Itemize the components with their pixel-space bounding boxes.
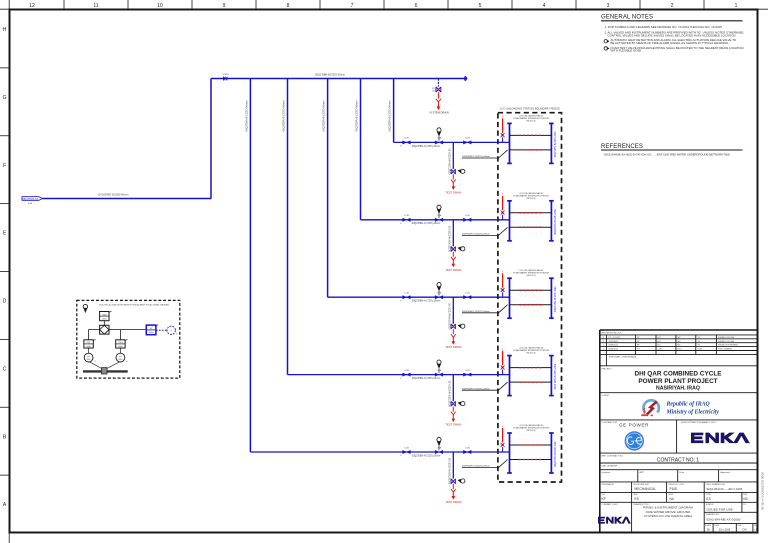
svg-text:D: D: [3, 299, 7, 305]
svg-text:PSH: PSH: [118, 342, 123, 344]
svg-text::: :: [745, 144, 746, 147]
wire dotted signal: [156, 329, 167, 331]
svg-text:00Q2'DBN-B-('225')-00mm: 00Q2'DBN-B-('225')-00mm: [354, 101, 358, 132]
svg-text:LC/B: LC/B: [404, 447, 409, 449]
wire riser: [210, 79, 212, 199]
wire station 3 branch: [328, 296, 510, 298]
svg-text:(NOTE-4): (NOTE-4): [526, 275, 535, 277]
svg-text:ISSUED FOR USE: ISSUED FOR USE: [707, 507, 733, 511]
svg-text:11: 11: [93, 3, 98, 9]
node spray header right station 4: [549, 356, 557, 396]
svg-text:FOR COMMENT: FOR COMMENT: [718, 349, 733, 351]
svg-text:00Q2'DBN-N ('225')-20mm: 00Q2'DBN-N ('225')-20mm: [412, 222, 440, 225]
svg-text:0000: 0000: [118, 359, 122, 361]
node bottom section: [602, 502, 705, 533]
instrument box right: [116, 339, 128, 348]
valve gate station 1: [400, 138, 410, 148]
valve drain station 4: [451, 401, 465, 406]
svg-text:ELECTRIC ACTUATION RELEASE BY: ELECTRIC ACTUATION RELEASE BY FIRE ALARM…: [99, 303, 169, 306]
wire diagonals to pipe: [90, 362, 103, 369]
valve system drain stub: [432, 79, 441, 93]
svg-text:10''Q2'DBN 'E'(325)-00mm: 10''Q2'DBN 'E'(325)-00mm: [98, 192, 129, 196]
valve drain station 2: [451, 247, 465, 252]
svg-text:08: 08: [432, 90, 435, 92]
svg-text:Date: Date: [680, 471, 685, 474]
svg-text:STATUS: STATUS: [706, 503, 714, 506]
svg-text:7: 7: [351, 3, 354, 9]
svg-text:TEST DRAIN: TEST DRAIN: [445, 268, 461, 272]
node general notes: [601, 15, 746, 21]
svg-text:LC/B: LC/B: [465, 215, 470, 217]
svg-text:SUBCONTRACTOR NAME / LOGO: SUBCONTRACTOR NAME / LOGO: [681, 421, 716, 424]
svg-text:COMPANY LOGO: COMPANY LOGO: [602, 503, 619, 506]
svg-text:N3: N3: [744, 497, 748, 501]
node spray title station 5: [513, 424, 549, 432]
svg-text:(NOTE-4): (NOTE-4): [526, 198, 535, 200]
wire foam red line station 1: [501, 116, 505, 142]
wire spray line upper station 3: [510, 289, 552, 291]
svg-text:A: A: [3, 502, 7, 508]
valve gate station 2: [400, 215, 410, 225]
node spray header left station 2: [507, 201, 512, 241]
svg-text:00Q2'DBN-B-('225')-00mm: 00Q2'DBN-B-('225')-00mm: [322, 101, 326, 132]
svg-text:00Q2'DBN-B('225')-20m: 00Q2'DBN-B('225')-20m: [554, 287, 557, 313]
svg-text:CONTRACTOR: CONTRACTOR: [602, 421, 618, 424]
svg-text:SCL: SCL: [602, 494, 607, 496]
wire distribution vertical 5: [249, 79, 251, 453]
svg-text:F: F: [400, 300, 402, 302]
svg-text:6: 6: [415, 3, 418, 9]
svg-text:DWG/DOC TYPE: DWG/DOC TYPE: [668, 484, 684, 486]
svg-text:3: 3: [607, 3, 610, 9]
svg-text:NA: NA: [670, 497, 675, 501]
wire test drain red station 3: [445, 329, 461, 349]
valve gate station 5: [400, 447, 410, 457]
node ministry text: [666, 402, 720, 416]
wire feed line: [43, 198, 212, 200]
svg-text:LC/B: LC/B: [437, 293, 442, 295]
node feed off-page connector: [22, 197, 43, 205]
node leader label station 5: [462, 460, 508, 468]
svg-text::: :: [745, 15, 746, 18]
svg-text:ON: ON: [743, 528, 747, 532]
svg-text:02/08/2021: 02/08/2021: [609, 345, 618, 347]
svg-text:LC/B: LC/B: [404, 293, 409, 295]
svg-text:WITH FLEXIBLE HOSE.: WITH FLEXIBLE HOSE.: [611, 49, 643, 53]
svg-text:(NOTE-4): (NOTE-4): [526, 353, 535, 355]
svg-text:F: F: [400, 146, 402, 148]
node revision table: [600, 335, 758, 366]
wire drain drop station 5: [449, 452, 454, 484]
wire spray line upper station 1: [510, 134, 552, 136]
svg-text:0000: 0000: [149, 332, 154, 334]
svg-text:92-2E-A-3 (A2052257) 0000: 92-2E-A-3 (A2052257) 0000: [761, 472, 765, 510]
instrument PAH top box: [100, 311, 112, 321]
svg-text:(NOTE-4): (NOTE-4): [526, 430, 535, 432]
instrument circle right: [116, 353, 128, 363]
wire drain drop station 2: [449, 220, 454, 252]
svg-text:PROJECT: PROJECT: [602, 368, 613, 370]
svg-text:LC/B: LC/B: [437, 370, 442, 372]
svg-text:9: 9: [223, 3, 226, 9]
svg-text:3: 3: [603, 337, 604, 339]
node GE POWER logo: [619, 422, 649, 450]
wire spray line lower station 1: [510, 149, 552, 151]
svg-text:2: 2: [603, 341, 604, 343]
wire foam red line station 3: [501, 271, 505, 297]
svg-text:4: 4: [502, 271, 504, 273]
node leader label station 4: [462, 382, 508, 390]
wire spray line lower station 5: [510, 459, 552, 461]
svg-text:S: S: [126, 361, 128, 363]
node note flag 3: [604, 40, 610, 43]
svg-text:4: 4: [502, 194, 504, 196]
svg-text:REV: REV: [743, 494, 748, 496]
valve deluge station 4: [435, 360, 443, 376]
wire distribution vertical 2: [360, 79, 362, 220]
svg-text:21/10/2021: 21/10/2021: [609, 341, 618, 343]
valve gate station 4: [400, 370, 410, 380]
svg-text:LCO UNLOADING STATION BOUNDARY: LCO UNLOADING STATION BOUNDARY FENCE: [500, 107, 560, 111]
svg-text:GENERAL NOTES: GENERAL NOTES: [601, 15, 653, 21]
svg-text:KP: KP: [602, 497, 606, 501]
svg-text:REVISIONS BLOCK: REVISIONS BLOCK: [602, 333, 622, 335]
svg-text:CLIENT: CLIENT: [602, 395, 610, 397]
svg-text:92A2-WH-ME-XX-0001-D-GR-YDH-VS: 92A2-WH-ME-XX-0001-D-GR-YDH-VS-......-EN…: [604, 153, 730, 157]
svg-text:LC/B: LC/B: [404, 138, 409, 140]
svg-text:00Q2'DBN-B('225')-20m: 00Q2'DBN-B('225')-20m: [554, 364, 557, 390]
svg-text:1: 1: [603, 345, 604, 347]
node spray header right station 2: [549, 201, 557, 241]
svg-text:MECHANICAL: MECHANICAL: [635, 487, 657, 491]
pipe cap end of header: [465, 77, 467, 81]
valve isolation station 3: [463, 293, 471, 299]
svg-text:Republic of IRAQ: Republic of IRAQ: [666, 402, 711, 408]
node sensing pipe bar: [83, 368, 128, 374]
svg-text:LC/B: LC/B: [404, 370, 409, 372]
svg-text:00Q2'DBN-B('225')-20m: 00Q2'DBN-B('225')-20m: [554, 209, 557, 235]
svg-text:ISSUED FOR USE: ISSUED FOR USE: [718, 337, 735, 339]
svg-text:NASIRIYAH, IRAQ: NASIRIYAH, IRAQ: [656, 386, 700, 392]
svg-text:00Q2'DBN-B('225')-20m: 00Q2'DBN-B('225')-20m: [554, 132, 557, 158]
svg-text:TEST DRAIN: TEST DRAIN: [445, 423, 461, 427]
svg-text:F: F: [400, 455, 402, 457]
wire spray line lower station 2: [510, 226, 552, 228]
reducer on header: [222, 74, 229, 81]
node spray header right station 1: [549, 123, 557, 163]
svg-text:LC/B: LC/B: [465, 447, 470, 449]
svg-text:G: G: [3, 95, 7, 101]
instrument circle signal: [167, 326, 178, 335]
svg-text:CAD DETAILER: CAD DETAILER: [602, 464, 618, 467]
svg-text:ORIG. DRAWING NO.: ORIG. DRAWING NO.: [706, 483, 726, 486]
wire to solenoid: [109, 329, 146, 331]
svg-text:1. FOR SYMBOLS AND LEGENDS SE: 1. FOR SYMBOLS AND LEGENDS SEE DRAWING N…: [605, 25, 723, 29]
svg-text:SCALE: SCALE: [705, 524, 712, 527]
svg-text:C: C: [3, 366, 7, 372]
node spray title station 2: [513, 192, 549, 200]
wire foam red line station 4: [501, 348, 505, 374]
svg-text:LC/B: LC/B: [437, 215, 442, 217]
svg-text:ES: ES: [707, 497, 711, 501]
node ENKA small logo: [598, 517, 631, 524]
wire station 1 branch: [394, 141, 510, 143]
node note flag 4: [604, 47, 610, 50]
svg-text:1: 1: [735, 3, 738, 9]
svg-text:ORIGINATOR: ORIGINATOR: [602, 483, 615, 486]
node title block frame: [600, 329, 758, 331]
node discipline row: [600, 482, 758, 502]
node leader label station 1: [462, 150, 508, 158]
svg-text:ES: ES: [635, 497, 639, 501]
svg-text:P&ID: P&ID: [670, 487, 678, 491]
solenoid box S1: [146, 325, 158, 335]
node spray title station 3: [513, 269, 549, 277]
svg-text:TEMPORARY LOWER AREA(H): TEMPORARY LOWER AREA(H): [609, 356, 637, 359]
svg-text:00Q2'DBN-N ('225')-20mm: 00Q2'DBN-N ('225')-20mm: [412, 377, 440, 380]
wire drain drop station 4: [449, 375, 454, 407]
node spray header right station 5: [549, 433, 557, 473]
wire top header: [211, 78, 466, 80]
node signature row: [602, 470, 731, 482]
svg-text:(NOTE-4): (NOTE-4): [526, 120, 535, 122]
svg-text:92A2-WH-ME-XX-01003: 92A2-WH-ME-XX-01003: [707, 517, 741, 521]
wire station 2 branch: [361, 219, 510, 221]
wire stem: [103, 321, 105, 326]
wire spray line upper station 4: [510, 367, 552, 369]
svg-text:ECO: ECO: [678, 349, 683, 351]
svg-text:0: 0: [603, 349, 604, 351]
svg-text:F: F: [400, 378, 402, 380]
wire test drain red station 4: [445, 407, 461, 427]
svg-text:Ministry of Electricity: Ministry of Electricity: [666, 409, 720, 415]
wire stems to circles: [88, 348, 90, 353]
svg-text:LC/B: LC/B: [465, 138, 470, 140]
wire station 4 branch: [288, 374, 510, 376]
svg-text:4: 4: [502, 116, 504, 118]
svg-text:Sh: Sh: [707, 528, 711, 532]
svg-text:REFERENCES: REFERENCES: [601, 144, 643, 150]
valve deluge station 2: [435, 205, 443, 221]
svg-text:00Q2'DBN-B-('225')-00mm: 00Q2'DBN-B-('225')-00mm: [281, 101, 285, 132]
wire distribution vertical 4: [287, 79, 289, 375]
node spray title station 1: [513, 114, 549, 122]
svg-text:F: F: [400, 223, 402, 225]
node leader label station 2: [462, 227, 508, 235]
valve drain station 5: [451, 479, 465, 484]
svg-text:C.HK: C.HK: [658, 349, 663, 351]
svg-text:SIZE: SIZE: [738, 525, 743, 527]
svg-text:Engineer: Engineer: [602, 471, 611, 474]
svg-text:0000: 0000: [102, 318, 107, 320]
svg-text:LC/B: LC/B: [437, 138, 442, 140]
wire spray line lower station 4: [510, 381, 552, 383]
svg-text:00Q2'DBN-N ('225')-20mm: 00Q2'DBN-N ('225')-20mm: [412, 145, 440, 148]
node LCO unloading station boundary fence: [498, 107, 562, 482]
wire spray line upper station 5: [510, 444, 552, 446]
svg-text:Approved: Approved: [721, 471, 731, 474]
svg-text:4: 4: [543, 3, 546, 9]
svg-text:DHI QAR COMBINED CYCLE: DHI QAR COMBINED CYCLE: [635, 371, 723, 378]
svg-text:2: 2: [671, 3, 674, 9]
svg-text:0-0625: 0-0625: [222, 74, 229, 76]
svg-text:F: F: [3, 163, 6, 169]
svg-text:20-x-20-B: 20-x-20-B: [719, 528, 731, 532]
svg-text:10: 10: [157, 3, 163, 9]
node status cell: [704, 502, 758, 533]
wire distribution vertical 3: [327, 79, 329, 298]
wire foam red line station 5: [501, 426, 505, 452]
svg-text:00Q2'DBN-B-('225')-00mm: 00Q2'DBN-B-('225')-00mm: [244, 101, 248, 132]
svg-text:00Q2'DBN-N ('225')-20mm: 00Q2'DBN-N ('225')-20mm: [412, 454, 440, 457]
valve isolation station 2: [463, 215, 471, 221]
wire right branch: [119, 330, 121, 340]
svg-text:+: +: [170, 329, 172, 332]
svg-text:POWER PLANT PROJECT: POWER PLANT PROJECT: [638, 378, 717, 385]
svg-text:4: 4: [502, 348, 504, 350]
wire station 5 branch: [250, 451, 509, 453]
svg-text:0000: 0000: [87, 359, 91, 361]
svg-text:EY + 12/2021: EY + 12/2021: [609, 337, 620, 339]
wire spray line upper station 2: [510, 212, 552, 214]
svg-text:PO: PO: [743, 504, 746, 506]
valve isolation station 1: [463, 138, 471, 144]
wire test drain red station 2: [445, 252, 461, 272]
instrument circle left: [84, 353, 96, 363]
wire drain drop station 1: [449, 142, 454, 174]
wire spray line lower station 3: [510, 304, 552, 306]
svg-text:ISSUED FOR REVIEW: ISSUED FOR REVIEW: [718, 345, 738, 347]
node ENKA logo: [691, 433, 750, 444]
node detail flag 3: [83, 304, 87, 313]
wire foam red line station 2: [501, 194, 505, 220]
svg-text:CONTROL VALVES AND DELUGE VALV: CONTROL VALVES AND DELUGE VALVES SHALL B…: [608, 33, 736, 37]
wire test drain red station 1: [445, 174, 461, 194]
svg-text:H: H: [3, 27, 7, 33]
node spray header left station 5: [507, 433, 512, 473]
node spray header right station 3: [549, 278, 557, 318]
svg-text:B: B: [3, 434, 7, 440]
node leader label station 3: [462, 305, 508, 313]
svg-text:00Q2'DBN-N ('225')-20mm: 00Q2'DBN-N ('225')-20mm: [412, 300, 440, 303]
wire system drain red: [429, 92, 449, 114]
node iraq ministry logo: [641, 400, 659, 416]
valve isolation station 5: [463, 447, 471, 453]
node spray header left station 1: [507, 123, 512, 163]
svg-text:S: S: [95, 361, 97, 363]
node project title: [602, 368, 723, 391]
svg-text:SIZE: SIZE: [633, 494, 638, 496]
valve drain station 1: [451, 169, 465, 174]
svg-text:TEST DRAIN: TEST DRAIN: [445, 190, 461, 194]
svg-text:GE POWER: GE POWER: [619, 422, 649, 427]
svg-text:F-04: F-04: [28, 203, 33, 205]
svg-text:ISSUED FOR USE: ISSUED FOR USE: [718, 341, 735, 343]
svg-text:12: 12: [29, 3, 35, 9]
svg-text:05/06/2021: 05/06/2021: [609, 349, 618, 351]
svg-text:8: 8: [287, 3, 290, 9]
svg-text:LC/B: LC/B: [437, 447, 442, 449]
svg-text:5: 5: [479, 3, 482, 9]
svg-text:S: S: [176, 334, 178, 336]
instrument box left: [84, 339, 96, 348]
valve gate station 3: [400, 293, 410, 303]
svg-text:YUM: YUM: [698, 349, 703, 351]
deluge valve diamond U1: [100, 325, 109, 334]
svg-text:BE ACTIVATED BY MEANS OF FIRE: BE ACTIVATED BY MEANS OF FIRE ALARM SIGN…: [611, 41, 730, 45]
valve drain station 3: [451, 324, 465, 329]
svg-text:REF. CONTRACT NO.: REF. CONTRACT NO.: [602, 454, 624, 457]
valve isolation station 4: [463, 370, 471, 376]
wire left branch: [89, 330, 100, 340]
svg-text:00Q2'DBN-B('225')-00mm: 00Q2'DBN-B('225')-00mm: [315, 73, 345, 77]
wire drain drop station 3: [449, 297, 454, 329]
svg-text:E: E: [3, 231, 7, 237]
svg-text:DRAWING NO.: DRAWING NO.: [706, 513, 720, 516]
svg-text:PAH: PAH: [102, 313, 107, 316]
svg-text:00Q2'DBN-B('225')-20m: 00Q2'DBN-B('225')-20m: [554, 441, 557, 467]
svg-text:SYSTEM LCO UNLOADING AREA: SYSTEM LCO UNLOADING AREA: [644, 514, 693, 518]
wire distribution vertical 1: [393, 79, 395, 143]
svg-text:92A2-WH-NG.....-EN-Y-0103: 92A2-WH-NG.....-EN-Y-0103: [707, 487, 743, 491]
svg-text:4: 4: [502, 426, 504, 428]
svg-text:TEST DRAIN: TEST DRAIN: [445, 345, 461, 349]
wire test drain red station 5: [445, 484, 461, 504]
node contract row: [602, 454, 700, 463]
svg-text:TEST DRAIN: TEST DRAIN: [445, 500, 461, 504]
svg-text:00Q2'DBN-B-('225')-00mm: 00Q2'DBN-B-('225')-00mm: [388, 101, 392, 132]
svg-text:APP: APP: [640, 471, 645, 474]
node spray title station 4: [513, 347, 549, 355]
svg-text:LC/B: LC/B: [465, 293, 470, 295]
node references: [601, 144, 746, 157]
svg-text:DISCIPLINE DSC: DISCIPLINE DSC: [633, 484, 649, 486]
valve deluge station 1: [435, 128, 443, 144]
svg-text:LC/B: LC/B: [465, 370, 470, 372]
svg-text:SYSTEM DRAIN: SYSTEM DRAIN: [429, 111, 449, 115]
svg-text:LC/B: LC/B: [404, 215, 409, 217]
valve deluge station 5: [435, 437, 443, 453]
svg-text:DATE: DATE: [715, 524, 720, 527]
valve deluge station 3: [435, 283, 443, 299]
svg-text:UOM: UOM: [668, 494, 673, 496]
node drawing title text: [643, 506, 693, 518]
svg-text:92A2-WH-AG-401: 92A2-WH-AG-401: [22, 198, 40, 201]
svg-text:TYPE: TYPE: [706, 494, 712, 496]
node spray header left station 4: [507, 356, 512, 396]
node typical actuation detail box: [77, 300, 180, 378]
node spray header left station 3: [507, 278, 512, 318]
